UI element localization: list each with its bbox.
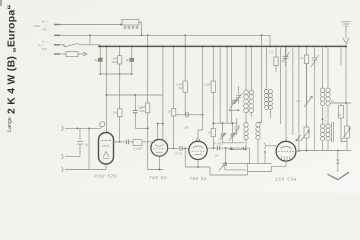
svg-text:0,1M: 0,1M	[204, 83, 211, 87]
wire anode V3 with capacitor C8	[207, 147, 217, 149]
junction dots on bus	[99, 45, 347, 47]
svg-text:7-8: 7-8	[42, 27, 47, 31]
trimmer capacitor CT8	[232, 101, 236, 103]
switch S1	[64, 43, 78, 47]
svg-text:0,1: 0,1	[297, 99, 302, 103]
wire anode feed V1	[105, 47, 107, 132]
potentiometer arrow P2	[304, 96, 313, 107]
resistor R8	[275, 47, 277, 57]
capacitor C2	[131, 47, 133, 58]
antenna plug arrow	[343, 38, 350, 43]
wire	[89, 35, 91, 45]
wire join	[223, 142, 244, 144]
resistor R3	[147, 35, 149, 103]
resistor R9 and potentiometer P1	[306, 47, 308, 55]
svg-text:P3U 5Zh: P3U 5Zh	[95, 173, 118, 178]
tube V4	[276, 141, 296, 161]
voltage selector taps	[122, 20, 139, 26]
svg-text:2 K 4 W (B) „Europa“: 2 K 4 W (B) „Europa“	[7, 4, 18, 114]
svg-text:2 —: 2 —	[42, 39, 48, 43]
grid cap of tube V1	[100, 122, 105, 127]
grid cap of tube V3	[196, 139, 199, 142]
wire drops	[280, 47, 282, 124]
svg-text:1,5: 1,5	[269, 50, 274, 54]
wire switch feed	[54, 44, 64, 46]
resistor R6 and resistor R7	[212, 47, 214, 81]
trimmer capacitor CT2	[231, 123, 233, 133]
svg-text:2μ: 2μ	[300, 56, 304, 60]
trimmer capacitor CT6	[283, 47, 289, 66]
output transformer T3 secondary A	[320, 124, 324, 128]
capacitor C3	[134, 95, 136, 110]
tube V1 envelope	[99, 133, 114, 165]
wire anode V1	[114, 141, 126, 143]
tube V4 pointer arrow	[296, 135, 301, 141]
wire output rail	[300, 150, 351, 152]
wire cathode V1	[105, 164, 107, 170]
svg-text:2W: 2W	[178, 86, 183, 90]
IF transformer T2 primary	[244, 123, 248, 127]
wire	[106, 94, 162, 96]
svg-text:1M: 1M	[113, 111, 118, 115]
tube V2	[151, 139, 168, 156]
resistor R5	[184, 35, 186, 81]
wire corner to bus	[269, 35, 271, 45]
svg-text:4μ: 4μ	[94, 58, 98, 62]
wire join	[135, 127, 147, 129]
antenna terminal A	[62, 126, 64, 131]
svg-text:2kΩ: 2kΩ	[112, 60, 118, 64]
wire	[345, 47, 347, 103]
antenna symbol	[341, 22, 351, 26]
svg-text:780 5a: 780 5a	[190, 176, 208, 181]
svg-text:μF 50/2: μF 50/2	[213, 142, 224, 146]
wire grid lead V1	[65, 127, 102, 129]
component value labels	[94, 50, 341, 158]
wire join	[100, 73, 131, 75]
trimmer capacitor CT1	[222, 123, 224, 133]
resistor R4	[133, 140, 142, 146]
resistor R2	[118, 109, 122, 117]
wire cathode V4	[248, 161, 286, 171]
wire anode V4	[296, 150, 299, 152]
svg-text:μF: μF	[215, 154, 219, 158]
wire	[298, 47, 300, 150]
svg-text:μF 5: μF 5	[176, 152, 182, 156]
svg-text:μF1: μF1	[184, 126, 190, 130]
svg-text:10: 10	[338, 113, 342, 117]
capacitor C7 link	[176, 114, 186, 116]
svg-text:5k: 5k	[168, 110, 172, 114]
tube type labels	[95, 173, 298, 181]
svg-text:740 3a: 740 3a	[149, 175, 167, 180]
svg-text:ψ —: ψ —	[42, 19, 48, 23]
capacitor C4	[126, 140, 128, 145]
IF transformer T1 secondary	[250, 47, 252, 90]
wire bottom rail	[65, 169, 106, 171]
title: 2 K 4 W (B) Europa (rotated)	[7, 4, 18, 132]
wire tube V2 top leads	[158, 47, 163, 141]
capacitor C1	[99, 47, 101, 58]
trimmer capacitor CT7	[312, 47, 318, 68]
wire coupling V2 to V3	[168, 147, 179, 149]
tube V1 electrodes	[101, 140, 111, 142]
wire cathode V2	[148, 156, 164, 169]
fuse Si	[66, 52, 78, 57]
wire cathode V3	[185, 160, 247, 176]
grid terminal V4	[264, 143, 266, 149]
svg-text:1μ: 1μ	[331, 99, 335, 103]
IF transformer T2 secondary	[258, 35, 262, 122]
connector arrow	[83, 52, 87, 56]
trimmer capacitor CT3	[225, 148, 227, 163]
trimmer capacitor CT5	[234, 118, 239, 135]
wire	[88, 128, 90, 169]
svg-text:500: 500	[140, 109, 145, 113]
tube V3	[189, 141, 207, 159]
wire grid feed V3	[198, 47, 203, 138]
wire	[213, 122, 237, 124]
trimmer capacitor CT4	[236, 86, 241, 104]
wire stubs	[230, 109, 239, 111]
wire stub	[340, 47, 342, 65]
antenna terminal B	[62, 154, 64, 159]
terminal labels	[33, 19, 48, 51]
output transformer T3 primary B	[327, 47, 329, 88]
wire mains terminal line 2	[54, 34, 270, 36]
coil L1	[266, 47, 268, 89]
wire rail	[246, 163, 272, 165]
wire fuse feed	[54, 53, 66, 55]
svg-text:0,1MΩ: 0,1MΩ	[134, 147, 144, 151]
wire grid feed V4	[285, 47, 287, 141]
output transformer T3 primary A	[322, 47, 324, 88]
wire rail	[229, 148, 247, 150]
transformer core dotted	[324, 108, 326, 124]
svg-text:+220: +220	[33, 24, 40, 28]
resistor R10 and potentiometer P3	[331, 102, 352, 104]
scan edge mark top-left	[0, 0, 2, 6]
IF transformer T1 primary	[245, 47, 247, 90]
capacitor C6	[180, 146, 182, 151]
ground terminal C	[62, 167, 64, 172]
wire mains terminal line 1	[54, 24, 121, 26]
svg-text:5μ: 5μ	[126, 58, 130, 62]
loudspeaker LS	[337, 151, 339, 159]
transformer T3 core	[332, 122, 334, 142]
wire drops	[227, 47, 232, 123]
svg-text:1μ: 1μ	[85, 143, 89, 147]
svg-text:2k: 2k	[207, 131, 211, 135]
resistor R1	[119, 47, 121, 55]
wire main bus	[98, 45, 346, 47]
svg-text:0-8: 0-8	[42, 47, 47, 51]
capacitor C5	[77, 128, 83, 156]
svg-text:165 53a: 165 53a	[275, 177, 297, 182]
svg-text:Lange.: Lange.	[7, 116, 13, 132]
output transformer T3 secondary B	[326, 124, 330, 128]
